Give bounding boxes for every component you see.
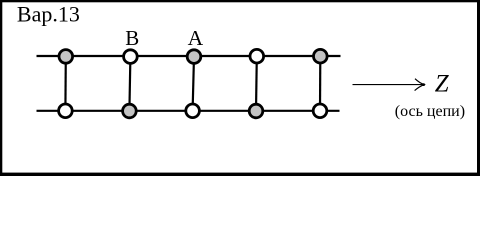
- wire rung 3: [193, 56, 194, 110]
- node top atom 5 (gray): [314, 49, 328, 63]
- svg-text:(ось цепи): (ось цепи): [395, 103, 465, 120]
- node top atom 1 (gray): [59, 50, 73, 64]
- svg-text:B: B: [125, 26, 139, 50]
- wire bottom chain line: [37, 110, 340, 112]
- wire rung 1: [64, 56, 67, 111]
- wire rung 2: [129, 56, 130, 111]
- arrow Z axis shaft: [353, 84, 424, 86]
- node bottom atom 1 (white): [59, 104, 73, 118]
- wire rung 5: [319, 56, 321, 111]
- svg-text:Вар.13: Вар.13: [17, 1, 80, 26]
- wire top chain line: [37, 55, 341, 57]
- node top atom 2 B (white): [124, 50, 138, 64]
- node top atom 4 (white): [250, 49, 264, 63]
- node bottom atom 5 (white): [313, 104, 327, 118]
- node bottom atom 2 (gray): [123, 104, 137, 118]
- svg-text:Z: Z: [435, 70, 450, 97]
- node bottom atom 3 (white): [186, 104, 200, 118]
- arrow Z axis head: [415, 79, 425, 91]
- border frame: [0, 0, 480, 176]
- wire rung 4: [255, 56, 258, 111]
- node top atom 3 A (gray): [187, 50, 201, 64]
- svg-text:A: A: [188, 26, 204, 50]
- node bottom atom 4 (gray): [249, 104, 263, 118]
